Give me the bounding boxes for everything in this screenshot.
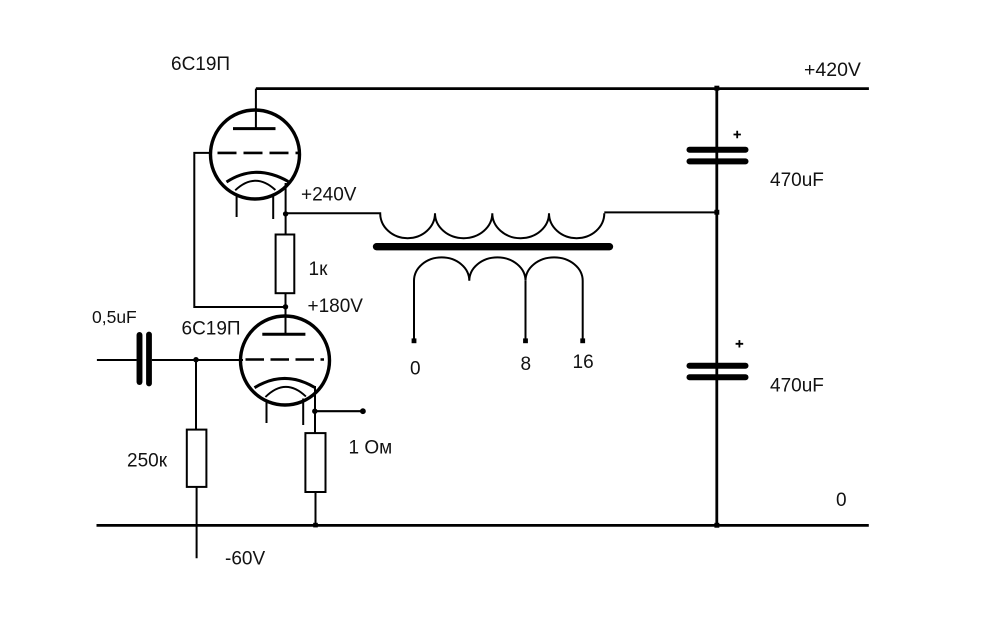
svg-text:+420V: +420V — [804, 59, 861, 81]
svg-text:0,5uF: 0,5uF — [92, 307, 137, 327]
svg-text:+180V: +180V — [308, 296, 364, 317]
svg-text:8: 8 — [521, 354, 532, 375]
svg-text:-60V: -60V — [225, 549, 265, 570]
svg-text:0: 0 — [836, 490, 847, 511]
svg-text:1к: 1к — [309, 259, 329, 280]
svg-text:1 Ом: 1 Ом — [349, 438, 393, 459]
svg-text:6С19П: 6С19П — [171, 54, 230, 75]
svg-text:0: 0 — [410, 359, 421, 380]
svg-text:470uF: 470uF — [770, 170, 824, 191]
svg-text:6С19П: 6С19П — [182, 319, 241, 340]
svg-text:16: 16 — [573, 352, 594, 373]
svg-text:250к: 250к — [127, 451, 168, 472]
svg-text:+240V: +240V — [301, 185, 357, 206]
svg-text:470uF: 470uF — [770, 376, 824, 397]
